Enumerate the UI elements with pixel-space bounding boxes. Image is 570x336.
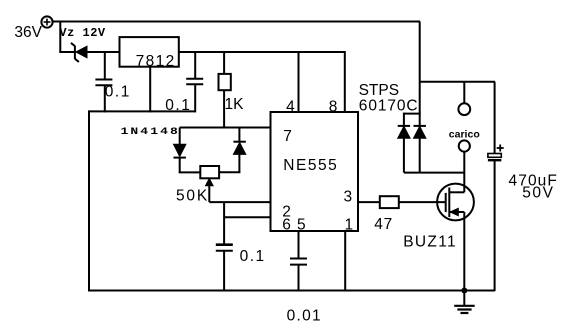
wire input drop to zener xyxy=(59,22,61,53)
terminal load lower xyxy=(459,140,470,151)
svg-text:BUZ11: BUZ11 xyxy=(403,233,457,250)
wire pin6 xyxy=(224,216,270,218)
wire R2 to gate xyxy=(399,201,446,203)
svg-text:STPS: STPS xyxy=(359,82,399,99)
diode D1 1N4148 xyxy=(174,128,186,173)
svg-text:3: 3 xyxy=(344,188,353,205)
wire zener left lead xyxy=(59,51,75,53)
svg-text:50K: 50K xyxy=(176,188,209,205)
IC U1 NE555 xyxy=(271,112,359,231)
wire pin5 xyxy=(298,231,300,258)
wire 12V rail xyxy=(179,51,345,53)
junction dot ground xyxy=(461,288,467,294)
wire wiper to pin2 xyxy=(209,201,270,203)
wire upper terminal stub xyxy=(463,82,465,104)
wire lower terminal to drain xyxy=(463,152,465,193)
wire pin2/pin6 vertical xyxy=(223,202,225,244)
wire top rail xyxy=(53,21,421,23)
wire ground bus upper xyxy=(89,110,195,112)
wire anode line to drain xyxy=(404,172,464,174)
capacitor C2 0.1 xyxy=(186,52,203,112)
svg-text:carico: carico xyxy=(449,129,480,141)
svg-text:36V: 36V xyxy=(14,24,42,41)
wire pin4 xyxy=(298,52,300,112)
terminal load upper xyxy=(458,103,470,115)
potentiometer RV1 50K xyxy=(200,166,219,202)
regulator U2 7812 xyxy=(120,37,179,70)
wire pin7 net xyxy=(180,127,271,129)
wire 7812 ground lead xyxy=(149,67,151,113)
diode D4 STPS left xyxy=(398,113,421,173)
transistor Q1 BUZ11 xyxy=(437,184,474,221)
wire pin8 xyxy=(344,51,346,112)
capacitor C4 0.01 xyxy=(290,259,307,292)
svg-text:0.1: 0.1 xyxy=(105,83,131,100)
svg-text:1N4148: 1N4148 xyxy=(121,125,180,137)
terminal J1 + input xyxy=(41,16,52,27)
svg-text:7812: 7812 xyxy=(136,53,176,70)
svg-text:5: 5 xyxy=(297,216,306,233)
svg-text:0.01: 0.01 xyxy=(287,307,322,324)
svg-text:1K: 1K xyxy=(225,96,245,113)
svg-text:50V: 50V xyxy=(522,185,554,202)
wire branch to load xyxy=(420,81,495,83)
svg-text:8: 8 xyxy=(329,99,338,116)
diode D2 1N4148 xyxy=(233,128,245,173)
wire pin1 xyxy=(344,231,346,291)
svg-text:4: 4 xyxy=(286,99,295,116)
svg-text:6: 6 xyxy=(282,216,291,233)
svg-text:0.1: 0.1 xyxy=(240,248,266,265)
wire D2 to pot xyxy=(219,171,240,173)
wire pin3 xyxy=(358,201,380,203)
svg-text:47: 47 xyxy=(374,216,393,233)
wire D1 to pot xyxy=(179,171,201,173)
svg-text:Vz 12V: Vz 12V xyxy=(59,26,106,40)
svg-text:NE555: NE555 xyxy=(283,157,338,174)
capacitor C1 0.1 xyxy=(95,52,112,112)
resistor R1 1K xyxy=(219,52,231,128)
wire ground rail bottom xyxy=(88,290,495,292)
resistor R2 47 xyxy=(380,196,399,208)
ground symbol xyxy=(454,291,475,314)
capacitor C5 470uF xyxy=(488,82,504,291)
svg-text:1: 1 xyxy=(345,216,354,233)
capacitor C3 0.1 xyxy=(216,245,233,291)
diode D5 STPS right xyxy=(414,126,426,138)
svg-text:60170C: 60170C xyxy=(359,98,419,115)
svg-text:7: 7 xyxy=(283,128,292,145)
wire ground bus left vertical xyxy=(88,110,90,291)
wire zener to 7812 xyxy=(87,51,120,53)
wire 36V right drop xyxy=(419,22,421,173)
zener diode DZ xyxy=(71,43,87,62)
wire source to ground rail xyxy=(463,212,465,291)
